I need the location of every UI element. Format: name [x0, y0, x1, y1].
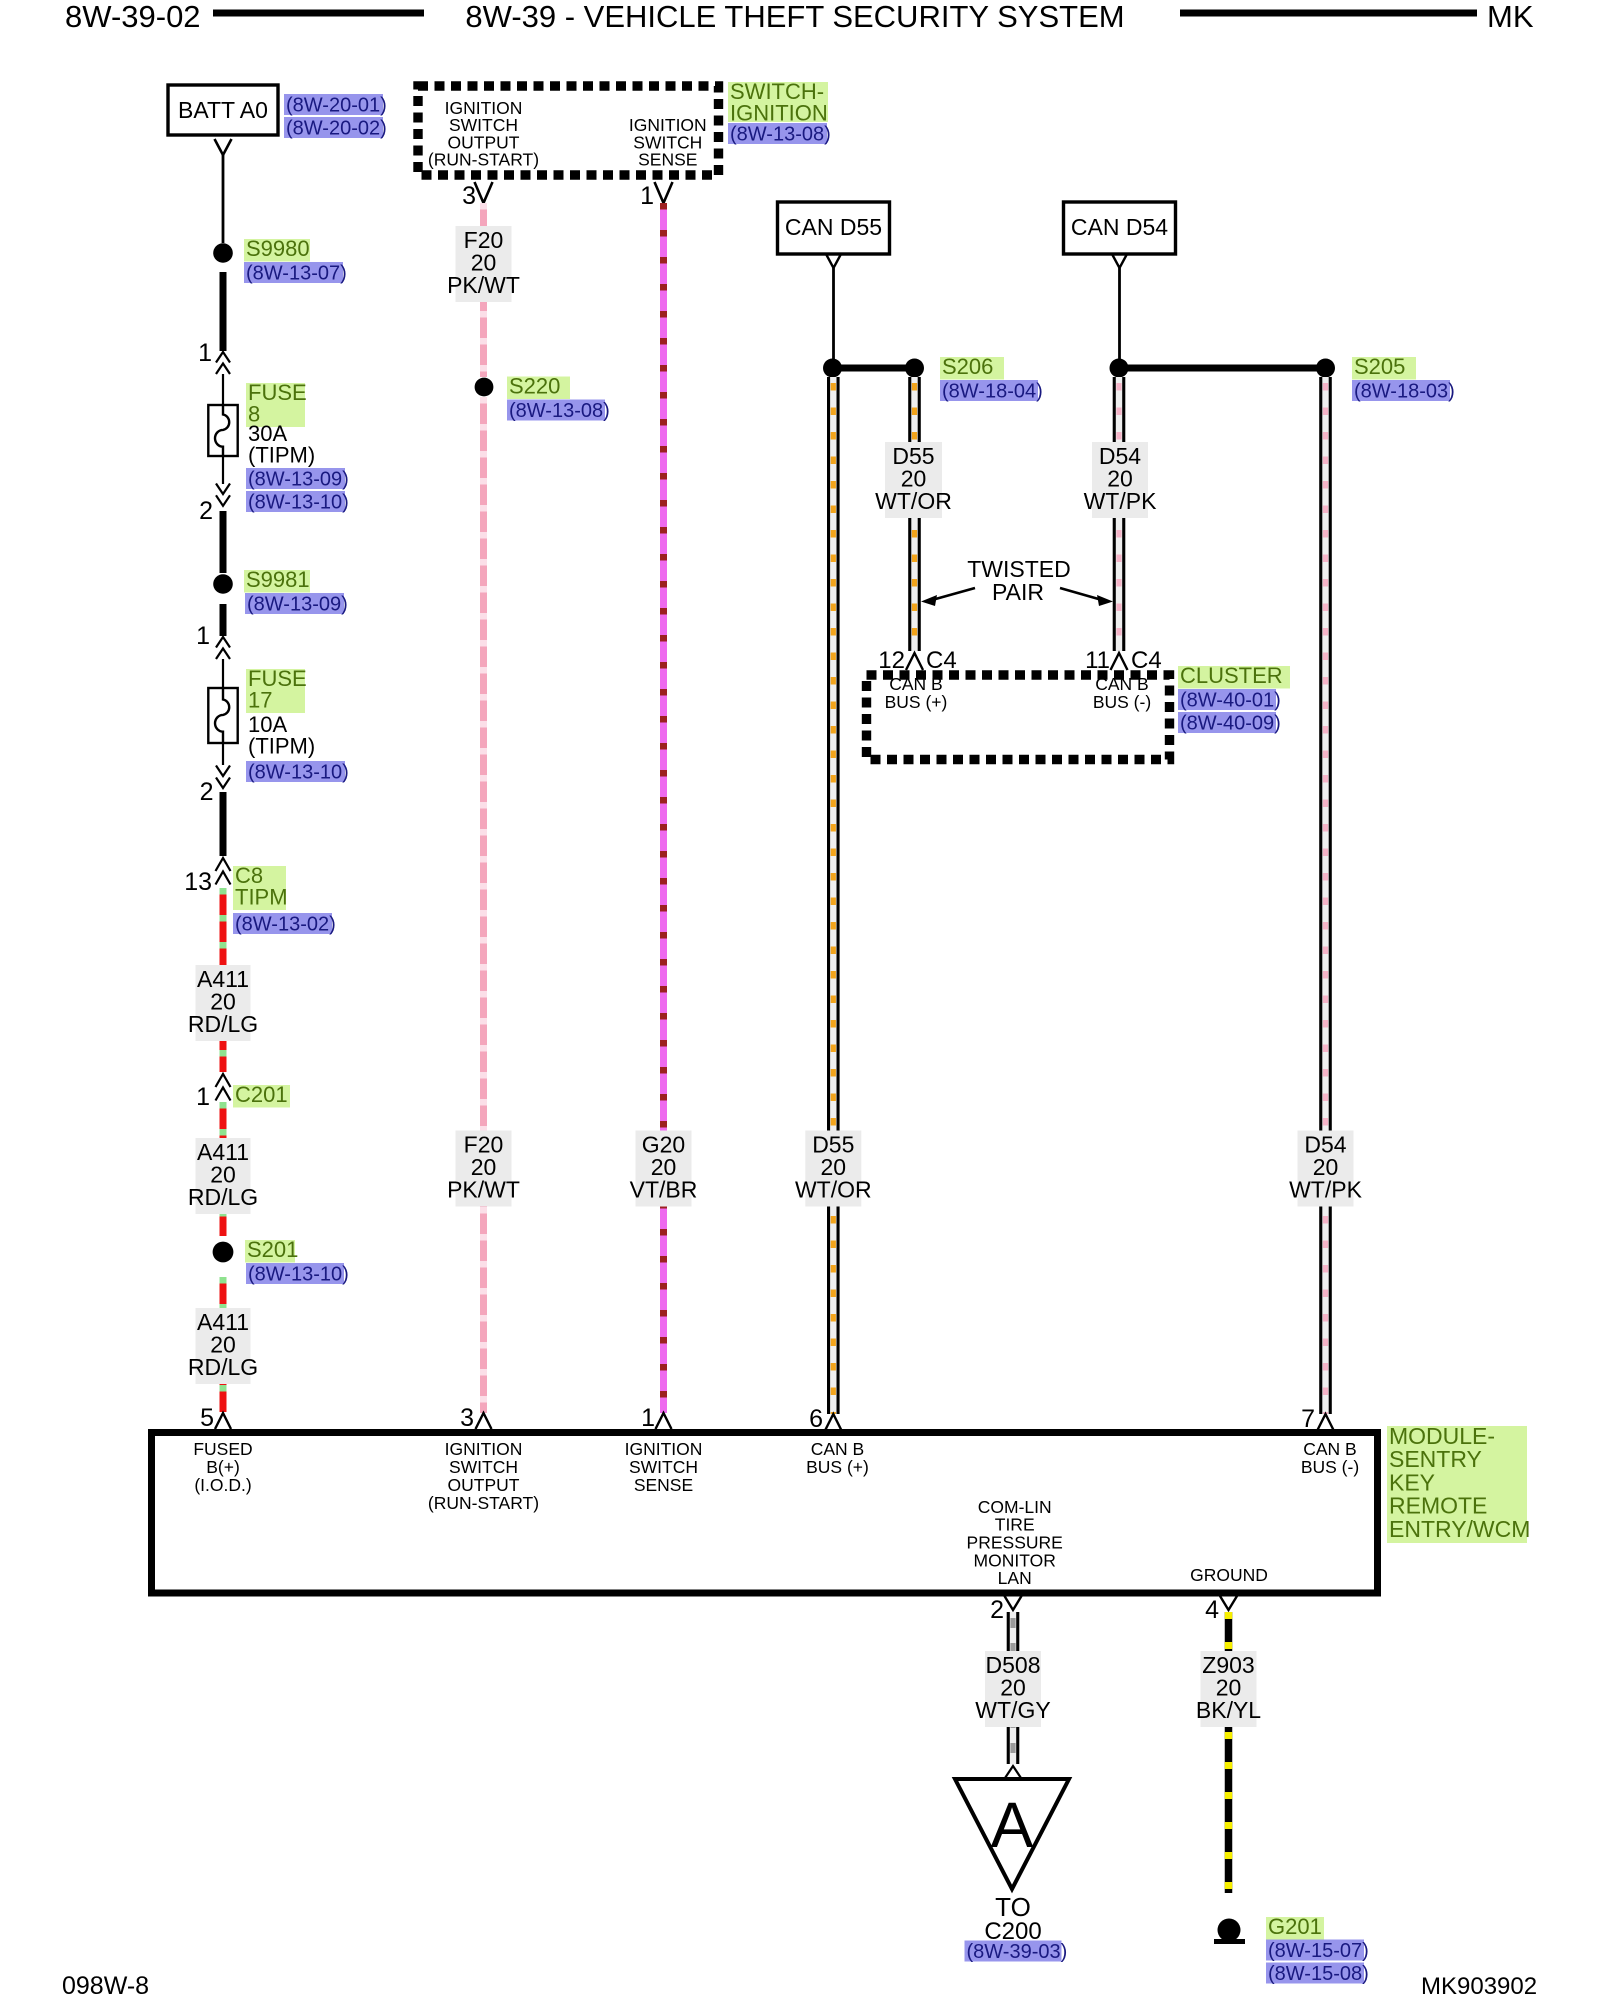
label CLUSTER (8W-40-01) (8W-40-09): [1178, 663, 1290, 735]
module pin 1: [641, 1404, 671, 1432]
connector arrow below BATT A0: [215, 139, 232, 155]
splice label S9981 (8W-13-09): [244, 567, 348, 616]
svg-text:RD/LG: RD/LG: [188, 1011, 258, 1037]
wire label Z903 20 BK/YL: [1196, 1651, 1261, 1727]
svg-text:S220: S220: [509, 374, 560, 399]
svg-text:WT/GY: WT/GY: [975, 1697, 1050, 1723]
svg-text:PK/WT: PK/WT: [447, 1177, 520, 1203]
svg-text:CAN B: CAN B: [889, 674, 942, 694]
svg-text:1: 1: [640, 182, 654, 210]
twisted pair arrow right: [1060, 588, 1113, 606]
text CAN B BUS (+) at pin 12: [885, 674, 948, 712]
svg-text:KEY: KEY: [1389, 1469, 1435, 1495]
splice S9980: [213, 243, 233, 263]
splice label S9980 (8W-13-07): [244, 236, 347, 285]
wire label F20 20 PK/WT (upper): [447, 226, 520, 302]
svg-text:(8W-40-09): (8W-40-09): [1180, 713, 1281, 735]
svg-text:BUS (-): BUS (-): [1301, 1457, 1359, 1477]
svg-text:(TIPM): (TIPM): [248, 443, 315, 468]
ground label G201 (8W-15-07) (8W-15-08): [1266, 1914, 1369, 1985]
svg-text:BUS (+): BUS (+): [885, 692, 948, 712]
text ignition switch output (run-start): [428, 98, 539, 170]
fuse 8 reference links (8W-13-09) (8W-13-10): [246, 468, 349, 514]
svg-text:A: A: [991, 1789, 1034, 1861]
svg-text:TIRE: TIRE: [995, 1515, 1035, 1535]
connector arrow below CAN D54: [1112, 254, 1127, 268]
connector arrow below CAN D55: [826, 254, 841, 268]
svg-text:2: 2: [990, 1596, 1004, 1624]
pin 1 connector C201: [196, 1074, 230, 1111]
svg-text:MODULE-: MODULE-: [1389, 1423, 1495, 1449]
svg-text:SENSE: SENSE: [638, 150, 697, 170]
svg-text:CAN B: CAN B: [1095, 674, 1148, 694]
svg-text:RD/LG: RD/LG: [188, 1354, 258, 1380]
wire label G20 20 VT/BR: [630, 1131, 698, 1207]
svg-text:S206: S206: [942, 354, 993, 379]
text ignition switch sense: [629, 115, 707, 169]
svg-text:WT/PK: WT/PK: [1084, 488, 1157, 514]
wire CAN D55 to splice S206: [832, 268, 835, 359]
header page number: [65, 0, 201, 34]
module text fused B(+) (I.O.D.): [193, 1439, 252, 1495]
svg-text:8W-39 - VEHICLE THEFT SECURITY: 8W-39 - VEHICLE THEFT SECURITY SYSTEM: [465, 0, 1124, 34]
svg-text:C201: C201: [235, 1082, 288, 1107]
connector label C201: [233, 1082, 290, 1108]
module pin 6: [809, 1405, 841, 1433]
svg-text:1: 1: [641, 1404, 655, 1432]
svg-text:OUTPUT: OUTPUT: [448, 1475, 520, 1495]
svg-text:BUS (+): BUS (+): [806, 1457, 869, 1477]
wire label A411 20 RD/LG (upper): [188, 965, 258, 1041]
module label MODULE-SENTRY KEY REMOTE ENTRY/WCM: [1387, 1423, 1530, 1543]
pin 13 connector C8 TIPM: [184, 858, 230, 896]
svg-text:IGNITION: IGNITION: [625, 1439, 703, 1459]
wire D55 main run to module pin 6 (WT/OR twisted): [827, 377, 840, 1414]
svg-text:(I.O.D.): (I.O.D.): [194, 1475, 251, 1495]
pin 2 of fuse 17: [200, 766, 230, 807]
wire fuse 17 to connector C8: [220, 792, 227, 856]
svg-text:6: 6: [809, 1405, 823, 1433]
svg-text:CLUSTER: CLUSTER: [1180, 663, 1283, 688]
module pin 5: [200, 1404, 231, 1432]
svg-text:8W-39-02: 8W-39-02: [65, 0, 201, 34]
fuse F8: [208, 405, 237, 456]
splice S205 bus: [1110, 359, 1336, 378]
wire out of fuse 17: [222, 743, 224, 765]
svg-text:CAN D55: CAN D55: [785, 214, 882, 240]
svg-text:2: 2: [200, 778, 214, 806]
wire label D54 20 WT/PK (upper): [1084, 442, 1157, 518]
module pin 4: [1205, 1596, 1237, 1624]
svg-text:WT/OR: WT/OR: [795, 1177, 872, 1203]
svg-text:(8W-39-03): (8W-39-03): [967, 1941, 1068, 1963]
wire A411 segment S201 to module pin 5 (RD/LG): [220, 1277, 227, 1412]
svg-text:(8W-18-04): (8W-18-04): [942, 381, 1043, 403]
svg-text:RD/LG: RD/LG: [188, 1184, 258, 1210]
splice label S220 (8W-13-08): [507, 374, 610, 423]
svg-text:IGNITION: IGNITION: [445, 1439, 523, 1459]
splice S9981: [213, 574, 233, 594]
module text CAN B BUS (+): [806, 1439, 869, 1477]
wire F20 ignition switch to splice S220 (PK/WT): [480, 203, 487, 377]
link (8W-39-03): [965, 1941, 1068, 1964]
fuse 17 label FUSE 17 10A (TIPM): [246, 666, 315, 759]
svg-text:12: 12: [878, 647, 905, 674]
svg-text:1: 1: [198, 339, 212, 367]
cluster dashed box: [867, 675, 1170, 760]
wire into fuse 8: [222, 374, 224, 405]
svg-text:(8W-13-07): (8W-13-07): [246, 263, 347, 285]
pin 1 of fuse 8: [198, 339, 230, 374]
wire F20 splice S220 to module pin 3 (PK/WT): [480, 397, 487, 1413]
wire A411 segment C8 to C201 (RD/LG): [220, 888, 227, 1072]
wire S9981 to fuse 17 pin 1: [220, 604, 227, 636]
wire A411 segment C201 to S201 (RD/LG): [220, 1102, 227, 1236]
module pin 7: [1301, 1405, 1333, 1433]
svg-text:PRESSURE: PRESSURE: [967, 1533, 1063, 1553]
splice S220: [475, 378, 494, 397]
wire BATT A0 to splice S9980: [222, 155, 225, 243]
wire label F20 20 PK/WT (lower): [447, 1131, 520, 1207]
wire D54 main run to module pin 7 (WT/PK twisted): [1319, 377, 1332, 1414]
svg-text:(8W-18-03): (8W-18-03): [1354, 381, 1455, 403]
svg-text:(8W-40-01): (8W-40-01): [1180, 690, 1281, 712]
pin 3 of ignition switch: [462, 182, 492, 210]
twisted pair note: [967, 556, 1071, 605]
svg-text:(8W-15-08): (8W-15-08): [1268, 1963, 1369, 1985]
wire label D54 20 WT/PK (lower): [1289, 1131, 1362, 1207]
svg-text:(RUN-START): (RUN-START): [428, 1493, 539, 1513]
svg-text:(TIPM): (TIPM): [248, 734, 315, 759]
svg-text:3: 3: [462, 182, 476, 210]
svg-text:VT/BR: VT/BR: [630, 1177, 698, 1203]
svg-text:(8W-13-09): (8W-13-09): [248, 469, 349, 491]
ground symbol G201: [1214, 1919, 1245, 1942]
header rule right: [1180, 10, 1477, 17]
svg-text:17: 17: [248, 688, 272, 713]
svg-text:(8W-15-07): (8W-15-07): [1268, 1940, 1369, 1962]
svg-text:WT/OR: WT/OR: [875, 488, 952, 514]
module text com-lin tire pressure monitor lan: [967, 1497, 1063, 1588]
label SWITCH-IGNITION (8W-13-08): [728, 79, 831, 146]
header rule left: [213, 10, 424, 17]
svg-text:ENTRY/WCM: ENTRY/WCM: [1389, 1516, 1530, 1542]
CAN D55 node box: [778, 202, 890, 254]
svg-text:G201: G201: [1268, 1914, 1322, 1939]
module sentry key remote entry box: [152, 1433, 1378, 1594]
battery feed BATT A0: [168, 85, 278, 135]
svg-text:S205: S205: [1354, 354, 1405, 379]
svg-text:(8W-13-10): (8W-13-10): [248, 492, 349, 514]
module text ground: [1190, 1565, 1268, 1585]
svg-text:S9981: S9981: [246, 567, 310, 592]
svg-text:CAN B: CAN B: [811, 1439, 864, 1459]
svg-text:B(+): B(+): [206, 1457, 240, 1477]
pin 11 connector C4: [1085, 647, 1162, 674]
svg-text:TIPM: TIPM: [235, 885, 288, 910]
wire D54 branch to cluster pin 11 (WT/PK twisted): [1113, 377, 1126, 651]
fuse 17 reference link (8W-13-10): [246, 761, 349, 784]
fuse F17: [208, 688, 237, 743]
svg-text:CAN B: CAN B: [1303, 1439, 1356, 1459]
wire fuse 8 to splice S9981: [220, 511, 227, 573]
pin 12 connector C4: [878, 647, 956, 674]
svg-text:IGNITION: IGNITION: [730, 101, 828, 126]
svg-text:SENSE: SENSE: [634, 1475, 693, 1495]
svg-text:(8W-13-10): (8W-13-10): [248, 1264, 349, 1286]
splice S201: [213, 1242, 234, 1263]
svg-text:SWITCH: SWITCH: [629, 1457, 698, 1477]
svg-text:(RUN-START): (RUN-START): [428, 150, 539, 170]
svg-text:(8W-20-02): (8W-20-02): [286, 118, 387, 140]
svg-text:7: 7: [1301, 1405, 1315, 1433]
joint connector A triangle: [955, 1779, 1069, 1889]
splice label S206 (8W-18-04): [940, 354, 1043, 403]
pin 1 of ignition switch: [640, 182, 672, 210]
svg-text:(8W-13-09): (8W-13-09): [247, 594, 348, 616]
svg-text:(8W-13-02): (8W-13-02): [235, 914, 336, 936]
BATT A0 reference links (8W-20-01) (8W-20-02): [284, 94, 387, 140]
module text CAN B BUS (-): [1301, 1439, 1359, 1477]
svg-text:4: 4: [1205, 1596, 1219, 1624]
chevron into joint A: [1005, 1766, 1021, 1778]
switch-ignition dashed box: [418, 86, 719, 175]
svg-text:13: 13: [184, 868, 212, 896]
connector label C8 TIPM (8W-13-02): [233, 863, 336, 936]
svg-text:3: 3: [460, 1404, 474, 1432]
svg-text:MK: MK: [1487, 0, 1534, 34]
svg-text:LAN: LAN: [998, 1568, 1032, 1588]
pin 1 of fuse 17: [196, 622, 230, 659]
header title: [465, 0, 1124, 34]
svg-text:(8W-20-01): (8W-20-01): [286, 95, 387, 117]
svg-text:2: 2: [199, 497, 213, 525]
pin 2 of fuse 8: [199, 484, 230, 526]
svg-text:WT/PK: WT/PK: [1289, 1177, 1362, 1203]
svg-text:CAN D54: CAN D54: [1071, 214, 1168, 240]
svg-text:PK/WT: PK/WT: [447, 272, 520, 298]
svg-text:BK/YL: BK/YL: [1196, 1697, 1261, 1723]
wire label D55 20 WT/OR (upper): [875, 442, 952, 518]
svg-text:5: 5: [200, 1404, 214, 1432]
svg-text:1: 1: [196, 622, 210, 650]
module text ignition switch output (run-start): [428, 1439, 539, 1513]
svg-text:FUSED: FUSED: [193, 1439, 252, 1459]
wire label A411 20 RD/LG (middle): [188, 1138, 258, 1214]
module pin 2: [990, 1596, 1021, 1624]
svg-text:PAIR: PAIR: [992, 579, 1044, 605]
wire label A411 20 RD/LG (lower): [188, 1308, 258, 1384]
twisted pair arrow left: [921, 588, 975, 606]
wire into fuse 17: [222, 659, 224, 688]
svg-text:1: 1: [196, 1083, 210, 1111]
fuse 8 label FUSE 8 30A (TIPM): [246, 380, 315, 468]
text CAN B BUS (-) at pin 11: [1093, 674, 1151, 712]
wire S9980 to fuse 8 pin 1: [220, 272, 227, 351]
footer sheet number: [62, 1972, 149, 2000]
splice label S205 (8W-18-03): [1352, 354, 1455, 403]
svg-text:BUS (-): BUS (-): [1093, 692, 1151, 712]
svg-text:11: 11: [1085, 647, 1110, 674]
svg-text:S201: S201: [247, 1237, 298, 1262]
splice label S201 (8W-13-10): [245, 1237, 349, 1286]
CAN D54 node box: [1064, 202, 1176, 254]
svg-text:MK903902: MK903902: [1421, 1973, 1537, 2000]
module text ignition switch sense: [625, 1439, 703, 1495]
label TO C200: [984, 1892, 1041, 1945]
svg-text:GROUND: GROUND: [1190, 1565, 1268, 1585]
header model code MK: [1487, 0, 1534, 34]
svg-text:(8W-13-08): (8W-13-08): [509, 400, 610, 422]
svg-text:C4: C4: [926, 647, 957, 674]
svg-text:S9980: S9980: [246, 236, 310, 261]
wire D508 module pin 2 to joint A (WT/GY twisted): [1007, 1612, 1020, 1764]
splice S206 bus: [823, 359, 924, 378]
wire label D508 20 WT/GY: [975, 1651, 1050, 1727]
svg-text:(8W-13-08): (8W-13-08): [730, 124, 831, 146]
wire Z903 module pin 4 to ground G201 (BK/YL): [1225, 1612, 1233, 1893]
svg-text:C4: C4: [1131, 647, 1162, 674]
svg-text:REMOTE: REMOTE: [1389, 1493, 1487, 1519]
svg-text:SENTRY: SENTRY: [1389, 1446, 1482, 1472]
wire label D55 20 WT/OR (lower): [795, 1131, 872, 1207]
svg-text:BATT A0: BATT A0: [178, 97, 268, 123]
wire out of fuse 8: [222, 456, 224, 484]
module pin 3: [460, 1404, 491, 1432]
wire G20 ignition switch sense to module pin 1 (VT/BR): [660, 203, 667, 1413]
svg-text:098W-8: 098W-8: [62, 1972, 149, 2000]
svg-text:SWITCH: SWITCH: [449, 1457, 518, 1477]
footer drawing number: [1421, 1973, 1537, 2000]
wire D55 branch to cluster pin 12 (WT/OR twisted): [908, 377, 921, 651]
svg-text:(8W-13-10): (8W-13-10): [248, 762, 349, 784]
wire CAN D54 to splice S205: [1118, 268, 1121, 359]
